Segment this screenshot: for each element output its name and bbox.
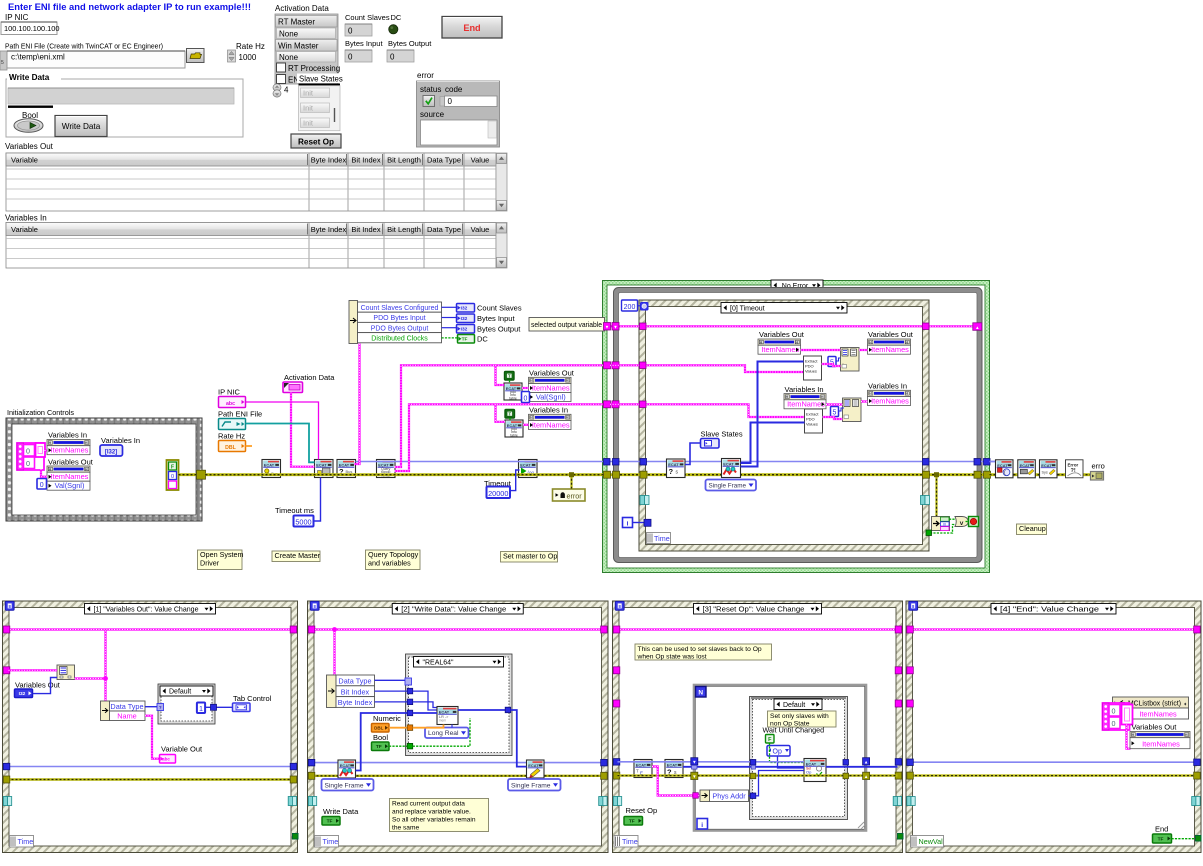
svg-text:Win Master: Win Master <box>278 42 319 51</box>
ECAT node: set slave state Op <box>804 759 826 782</box>
wire Activation Data to create master <box>291 393 315 467</box>
enum Single Frame (left) <box>322 779 374 791</box>
svg-text:0: 0 <box>348 27 353 36</box>
svg-text:error: error <box>417 71 434 80</box>
event frame [2] "Write Data": Value Change <box>308 601 609 853</box>
long blue wire from get master info <box>356 461 605 463</box>
svg-text:5000: 5000 <box>295 517 311 526</box>
ECAT node: write variable LR->mem <box>437 707 458 725</box>
svg-text:ItemNames: ItemNames <box>871 345 909 354</box>
svg-text:Variables Out: Variables Out <box>48 458 94 467</box>
pink branch to unbundle <box>333 630 335 676</box>
pink wire Name to Variable Out indicator <box>145 716 160 759</box>
pink tunnels left frame3 (stacked) <box>613 667 620 674</box>
svg-text:DC: DC <box>391 13 402 22</box>
array-of-cluster bracket constant <box>36 443 46 457</box>
teal dynamic tunnels <box>613 797 617 806</box>
yellow label Cleanup <box>1017 524 1047 535</box>
panel: Reset Op button <box>291 134 341 148</box>
ECAT node: read states frame3 <box>665 760 683 778</box>
svg-text:Data Type: Data Type <box>427 156 461 165</box>
ECAT node: create master <box>315 460 334 478</box>
svg-text:Default: Default <box>169 688 191 695</box>
svg-text:I32: I32 <box>461 326 468 332</box>
for loop i terminal <box>697 819 708 830</box>
svg-text:RT Processing: RT Processing <box>288 64 340 73</box>
pink wire across frame <box>313 628 604 630</box>
svg-text:ItemNames: ItemNames <box>532 420 570 429</box>
panel: Slave States listbox with Init items <box>299 84 341 86</box>
panel: browse button with folder icon <box>187 49 205 63</box>
svg-text:Val(Sgnl): Val(Sgnl) <box>55 481 85 490</box>
svg-text:Slave States: Slave States <box>701 430 743 439</box>
svg-text:TF: TF <box>376 744 382 750</box>
svg-text:Variable: Variable <box>11 225 38 234</box>
svg-text:Timeout ms: Timeout ms <box>275 506 314 515</box>
svg-text:Cleanup: Cleanup <box>1019 524 1046 533</box>
structure: main while loop (grey) <box>614 288 983 563</box>
cluster constant 0,0 (variables defaults) <box>17 443 44 470</box>
Time label frame3 <box>614 836 638 848</box>
svg-text:0: 0 <box>348 53 353 62</box>
main error wire through nodes <box>206 473 605 476</box>
wire control to index input <box>33 678 57 694</box>
panel: End button with red text <box>442 17 502 39</box>
panel: RT Processing checkbox row <box>277 63 286 72</box>
svg-text:i: i <box>701 822 703 829</box>
Time label frame2 <box>315 836 339 848</box>
pink wire to Phys Addr unbundle <box>652 767 693 796</box>
svg-text:table: table <box>509 396 517 400</box>
svg-text:Byte Index: Byte Index <box>311 225 347 234</box>
svg-text:Read current output data: Read current output data <box>392 800 465 807</box>
unbundle by name: Data Type / Bit Index / Byte Index <box>327 675 337 708</box>
svg-text:5: 5 <box>1 60 4 66</box>
svg-text:Bit Length: Bit Length <box>387 156 421 165</box>
svg-text:ECAT: ECAT <box>1020 463 1031 468</box>
blue wire case out to write node <box>458 709 505 711</box>
svg-text:1000: 1000 <box>239 53 257 62</box>
panel: Bytes Output value field <box>387 50 414 62</box>
svg-text:[0] Timeout: [0] Timeout <box>730 305 765 312</box>
blue array wires from read node to extract nodes <box>741 423 805 464</box>
pink wire across frame <box>911 628 1196 630</box>
svg-text:Init: Init <box>303 104 314 113</box>
svg-text:Write Data: Write Data <box>9 73 50 82</box>
wire slave states <box>685 443 701 465</box>
panel: ENI checkbox row <box>277 75 286 84</box>
orange wire into case <box>389 727 407 729</box>
panel: write data table strip (empty) <box>8 88 234 104</box>
indicator Bytes Input I32 <box>457 314 475 323</box>
svg-text:TF: TF <box>462 336 468 342</box>
structure: initialization flat sequence frame (film border) <box>6 418 202 521</box>
comment label set slaves back to Op <box>635 644 772 660</box>
svg-text:abc: abc <box>162 756 170 761</box>
svg-text:ItemNames: ItemNames <box>761 345 799 354</box>
svg-text:ItemNames: ItemNames <box>51 446 89 455</box>
svg-text:the same: the same <box>392 824 419 831</box>
ECAT node: get slave info frame3 <box>634 760 652 778</box>
svg-text:ItemNames: ItemNames <box>532 383 570 392</box>
svg-text:Variable: Variable <box>11 156 38 165</box>
svg-text:"REAL64": "REAL64" <box>423 659 455 666</box>
svg-text:▼: ▼ <box>692 760 696 765</box>
svg-text:v: v <box>960 520 964 527</box>
svg-text:I32: I32 <box>19 691 26 697</box>
simple error handler node <box>1066 460 1084 478</box>
svg-text:[4] "End": Value Change: [4] "End": Value Change <box>1000 606 1099 613</box>
panel: Write Data group box <box>6 79 243 137</box>
svg-text:None: None <box>279 30 299 39</box>
svg-text:Bytes Input: Bytes Input <box>477 314 515 323</box>
svg-text:Write Data: Write Data <box>323 807 359 816</box>
svg-text:Activation Data: Activation Data <box>284 373 335 382</box>
svg-text:Bit Index: Bit Index <box>341 687 370 696</box>
svg-text:Set master to Op: Set master to Op <box>503 551 557 560</box>
tunnels pink Variables In wire y404 <box>604 401 611 408</box>
indicator Count Slaves I32 <box>457 304 475 313</box>
error wire across loop and event <box>604 473 990 476</box>
svg-text:c:\temp\eni.xml: c:\temp\eni.xml <box>11 53 65 62</box>
pink tunnel left (unused) <box>3 667 10 674</box>
NewVal event data label <box>911 836 944 848</box>
tunnels pink Variables Out wire y365 <box>604 362 611 369</box>
green terminal frame1 bottom right <box>293 834 299 840</box>
wire pdo info to ItemNames <box>522 387 529 389</box>
svg-text:DC: DC <box>477 335 488 344</box>
svg-text:I32: I32 <box>461 316 468 322</box>
comment label set only slaves <box>768 711 837 727</box>
svg-text:Path ENI File: Path ENI File <box>218 410 262 419</box>
constant 1 inside case <box>197 703 205 714</box>
ECAT node: close master <box>1018 460 1036 478</box>
panel: Variables Out table <box>6 153 496 211</box>
for loop N terminal <box>696 687 707 698</box>
index array node <box>57 665 75 680</box>
svg-text:Init: Init <box>303 89 314 98</box>
TF tunnel on event border (bottom) <box>926 530 932 536</box>
cluster constant frame4 <box>1103 703 1130 730</box>
ECAT node: read PDO frame2 <box>338 760 356 778</box>
svg-text:I32: I32 <box>461 305 468 311</box>
green wire into case <box>389 745 407 747</box>
constant T green <box>766 735 775 744</box>
svg-text:[2] "Write Data": Value Change: [2] "Write Data": Value Change <box>401 606 506 613</box>
svg-text:Name: Name <box>117 712 136 721</box>
svg-text:F: F <box>171 465 174 471</box>
svg-text:0: 0 <box>1112 719 1116 728</box>
panel: error status checkbox with green check <box>423 96 435 107</box>
svg-text:Time: Time <box>654 534 670 543</box>
svg-text:Op: Op <box>806 770 812 775</box>
svg-text:Values: Values <box>806 422 818 427</box>
svg-text:Distributed Clocks: Distributed Clocks <box>371 336 428 343</box>
svg-text:mem: mem <box>439 719 446 723</box>
svg-text:Variables Out: Variables Out <box>529 369 575 378</box>
panel: Write Data button <box>55 116 107 137</box>
unbundle by name: Data Type / Name <box>101 701 110 721</box>
ECAT node: open system driver <box>262 460 281 478</box>
svg-text:Reset Op: Reset Op <box>298 138 334 147</box>
tunnels blue/olive on green+loop left edges <box>604 459 611 466</box>
pink wire node to top-right + branch down to unbundle <box>75 630 106 679</box>
event dynamic tunnels (teal) left/right <box>640 496 645 505</box>
panel: Bytes Input value field <box>345 50 372 62</box>
svg-text:Data Type: Data Type <box>427 225 461 234</box>
svg-text:source: source <box>420 110 445 119</box>
selector terminal case2 <box>405 678 412 685</box>
svg-text:Rate Hz: Rate Hz <box>236 42 265 51</box>
svg-text:▼: ▼ <box>613 325 617 330</box>
light blue wire through frame3 <box>618 761 752 763</box>
enum Long Real <box>425 728 469 739</box>
svg-text:i: i <box>627 521 629 528</box>
svg-text:Wait Until Changed: Wait Until Changed <box>763 726 825 735</box>
svg-text:Variables In: Variables In <box>101 436 140 445</box>
svg-text:Value: Value <box>471 156 490 165</box>
array to cluster node (in) <box>843 398 862 422</box>
svg-text:▼: ▼ <box>692 774 696 779</box>
svg-text:Variables In: Variables In <box>529 406 568 415</box>
Time event data label <box>10 836 34 848</box>
panel: Bool slide toggle <box>14 119 43 133</box>
while loop iteration terminal i <box>623 518 633 528</box>
svg-text:Bytes Output: Bytes Output <box>477 325 521 334</box>
panel: error source field <box>421 120 498 145</box>
svg-text:Single Frame: Single Frame <box>511 783 551 790</box>
svg-text:Bytes Input: Bytes Input <box>345 39 383 48</box>
svg-text:Set only slaves with: Set only slaves with <box>770 713 829 720</box>
svg-text:IP NIC: IP NIC <box>218 388 241 397</box>
svg-text:..: .. <box>842 360 844 365</box>
svg-text:Time: Time <box>323 837 339 846</box>
svg-text:0: 0 <box>26 459 30 468</box>
pink wire Variables In inside event <box>610 404 805 417</box>
svg-text:Driver: Driver <box>200 558 220 567</box>
loop stop terminal <box>969 517 979 527</box>
wire query topology to Variables In chain <box>395 404 605 471</box>
tunnel on sequence frame (error) <box>197 470 206 479</box>
structure: No Error case selector label <box>771 280 823 291</box>
error wire to error handler and indicator <box>990 473 1092 476</box>
case structure REAL64 <box>407 656 511 755</box>
svg-text:RT Master: RT Master <box>278 18 315 27</box>
svg-text:error: error <box>567 492 583 501</box>
svg-text:Variables In: Variables In <box>868 382 907 391</box>
svg-text:N: N <box>698 690 703 697</box>
wire Data Type to selector <box>145 706 157 708</box>
svg-text:PDO Bytes Output: PDO Bytes Output <box>371 325 429 332</box>
svg-text:[3] "Reset Op": Value Change: [3] "Reset Op": Value Change <box>703 606 805 613</box>
wire 1 to Tab Control <box>205 706 233 708</box>
constant 200 (timeout ms) <box>622 300 638 311</box>
green wire End to frame edge <box>1172 838 1197 840</box>
enum Single Frame <box>706 480 757 491</box>
error wire across frame <box>313 775 604 777</box>
svg-text:Bit Index: Bit Index <box>351 156 380 165</box>
svg-text:PDO Bytes Input: PDO Bytes Input <box>373 315 425 322</box>
svg-text:[1] "Variables Out": Value Cha: [1] "Variables Out": Value Change <box>94 606 199 613</box>
panel: Activation Data listbox <box>275 14 338 84</box>
svg-text:Byte Index: Byte Index <box>311 156 347 165</box>
panel: Rate Hz spinner + value 1000 <box>228 50 236 62</box>
indicator DC TF <box>458 335 475 344</box>
blue wire loop to close nodes <box>990 461 997 463</box>
wires inside case frame3 <box>770 743 805 763</box>
wires unbundle to case <box>375 679 406 681</box>
svg-text:Bit Length: Bit Length <box>387 225 421 234</box>
teal dynamic tunnels <box>3 797 7 806</box>
structure: [0] Timeout event structure <box>639 300 929 551</box>
constant 5 (in) <box>831 407 839 417</box>
case structure Default (tab value) <box>160 686 214 723</box>
svg-text:?: ? <box>669 467 674 476</box>
for loop resize glyph <box>858 822 866 830</box>
unbundle error cluster (loop stop logic) <box>935 475 937 517</box>
svg-text:ItemNames: ItemNames <box>1139 710 1177 719</box>
blue wire across frame <box>313 762 604 764</box>
error wire across frame <box>911 774 1196 776</box>
svg-text:IP NIC: IP NIC <box>5 13 29 22</box>
svg-text:Time: Time <box>622 837 638 846</box>
ECAT node: set master to Op <box>519 460 538 478</box>
svg-text:Path ENI File (Create with Twi: Path ENI File (Create with TwinCAT or EC… <box>5 42 163 51</box>
shift registers on for loop <box>691 758 698 765</box>
svg-text:MCListbox (strict): MCListbox (strict) <box>1128 701 1181 708</box>
svg-text:Write Data: Write Data <box>62 122 101 131</box>
event timeout terminal (clock icon) <box>641 303 649 311</box>
svg-text:0: 0 <box>171 474 174 480</box>
pink wire Variables Out inside event <box>610 365 804 372</box>
svg-text:♦: ♦ <box>1184 702 1187 708</box>
green wires to OR gate and stop <box>949 518 956 520</box>
svg-text:Data Type: Data Type <box>338 677 371 686</box>
panel: path field c:\temp\eni.xml <box>0 51 7 70</box>
wire 20000 to set-op node <box>510 470 520 491</box>
svg-text:▲: ▲ <box>975 325 979 330</box>
svg-text:DBL: DBL <box>374 725 383 730</box>
svg-text:selected output variable: selected output variable <box>531 320 602 329</box>
property node Variables In: ItemNames <box>47 440 90 446</box>
svg-text:Single Frame: Single Frame <box>709 483 747 490</box>
svg-text:Data Type: Data Type <box>110 702 143 711</box>
property node group: Variables Out (pdo info) <box>505 372 515 381</box>
panel: Variables In table <box>6 223 496 269</box>
error wire through frame3 <box>618 774 898 776</box>
constant 5 <box>828 357 836 367</box>
svg-text:Long Real: Long Real <box>428 730 459 737</box>
yellow label Open System Driver <box>198 550 243 570</box>
yellow label Set master to Op <box>501 552 558 563</box>
svg-text:Create Master: Create Master <box>275 551 321 560</box>
property ItemNames row (MCListbox) <box>1129 708 1189 719</box>
enum Single Frame (right) <box>508 779 561 791</box>
svg-text:End: End <box>463 23 480 33</box>
svg-text:Slave States: Slave States <box>299 75 343 84</box>
svg-text:ItemNames: ItemNames <box>51 472 89 481</box>
pink wire into index array <box>9 669 58 671</box>
svg-text:▼: ▼ <box>605 325 609 330</box>
svg-text:Bit Index: Bit Index <box>351 225 380 234</box>
svg-text:Bus: Bus <box>346 469 353 474</box>
svg-text:▲: ▲ <box>864 774 868 779</box>
svg-text:abc: abc <box>226 401 235 407</box>
svg-text:Bool: Bool <box>373 733 388 742</box>
ring constant Op <box>767 746 790 757</box>
pink wire to Variables Out ItemNames <box>1127 725 1131 749</box>
svg-text:when Op state was lost: when Op state was lost <box>637 654 707 661</box>
wire 5000 to create master <box>314 478 321 522</box>
svg-text:4: 4 <box>284 86 289 95</box>
svg-text:Variable Out: Variable Out <box>161 745 203 754</box>
svg-text:Error: Error <box>1068 462 1079 467</box>
property node Variables Out: ItemNames, Val(Sgnl) <box>47 466 90 472</box>
ECAT node: get master info ?Bus <box>337 460 356 478</box>
wire query topology to Variables Out chain <box>395 365 605 467</box>
svg-text:[I32]: [I32] <box>105 449 117 455</box>
svg-text:0: 0 <box>26 447 30 456</box>
svg-text:T: T <box>636 769 639 774</box>
svg-text:?: ? <box>159 705 162 710</box>
svg-text:1: 1 <box>199 704 203 713</box>
event frame [4] "End": Value Change <box>906 601 1201 853</box>
panel: black divider line <box>8 106 53 108</box>
svg-text:ECAT: ECAT <box>1041 463 1052 468</box>
event frame [3] "Reset Op": Value Change <box>613 601 903 853</box>
svg-text:and replace variable value.: and replace variable value. <box>392 808 471 815</box>
svg-text:0: 0 <box>448 97 453 106</box>
for loop frame3 <box>694 685 866 831</box>
teal dynamic tunnels <box>907 797 911 806</box>
extract PDO values subVI (in) <box>805 409 823 433</box>
blue wire out of case to frame edge <box>826 766 898 768</box>
svg-text:ItemNames: ItemNames <box>787 400 825 409</box>
pink wire selected output variable across loop <box>610 325 973 327</box>
constant 0 to Val(Sgnl) <box>522 392 530 403</box>
svg-text:Variables Out: Variables Out <box>759 330 805 339</box>
property node group: Variables In (pdo info) <box>505 410 515 419</box>
wires unbundle rows to indicators <box>442 306 457 308</box>
case border tunnels frame3 <box>750 760 756 766</box>
svg-text:Bytes Output: Bytes Output <box>388 39 432 48</box>
svg-text:erro: erro <box>1092 462 1105 471</box>
constant 0 wired to Val(Sgnl) <box>37 479 47 490</box>
svg-text:0: 0 <box>524 395 528 402</box>
svg-text:Enter ENI file and network ada: Enter ENI file and network adapter IP to… <box>8 2 251 12</box>
pink wire across frame <box>8 628 293 630</box>
ECAT node: write PDO frame2 <box>527 760 545 778</box>
Time label (event data node) <box>647 533 671 544</box>
selector terminal <box>157 704 164 711</box>
blue wire Phys Addr to case <box>749 795 752 797</box>
svg-text:Single Frame: Single Frame <box>325 783 364 790</box>
svg-text:20000: 20000 <box>488 489 508 498</box>
svg-text:Op: Op <box>773 749 782 756</box>
OR gate <box>955 517 969 527</box>
svg-text:code: code <box>445 85 463 94</box>
wire IP NIC to create master (string pink) <box>246 402 319 460</box>
svg-text:T: T <box>509 412 512 417</box>
svg-text:Tab Control: Tab Control <box>233 694 272 703</box>
wires out-group <box>801 349 841 351</box>
green terminal frame3 bottom right <box>898 834 904 840</box>
svg-text:Reset Op: Reset Op <box>626 806 658 815</box>
svg-text:ItemNames: ItemNames <box>871 396 909 405</box>
svg-text:So all other variables remain: So all other variables remain <box>392 816 476 823</box>
local variable error <box>553 489 586 501</box>
wire master info cluster up to unbundle <box>354 344 360 465</box>
